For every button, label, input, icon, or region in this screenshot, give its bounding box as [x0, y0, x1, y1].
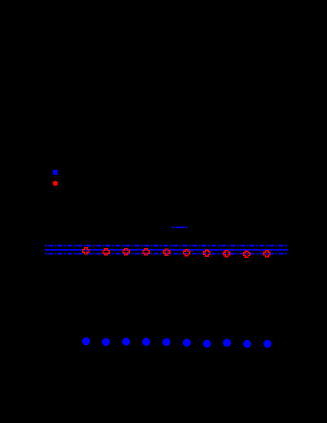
red plus error marker 9 — [244, 251, 250, 257]
lower blue dash-dot line — [45, 253, 288, 255]
blue data dot 7 — [203, 340, 211, 348]
red plus error marker 7 — [204, 250, 210, 256]
upper blue dash-dot line — [45, 245, 288, 247]
middle blue solid line — [45, 249, 288, 251]
red plus error marker 2 — [103, 249, 109, 255]
red plus error marker 6 — [184, 250, 190, 256]
blue data dot 4 — [142, 338, 150, 346]
blue data dot 8 — [223, 339, 231, 347]
legend red circle marker — [53, 181, 58, 186]
blue data dot 3 — [122, 338, 130, 346]
red plus error marker 1 — [83, 248, 89, 254]
red plus error marker 10 — [264, 251, 270, 257]
blue data dot 10 — [264, 340, 272, 348]
blue data dot 9 — [243, 340, 251, 348]
legend blue square marker — [53, 170, 58, 175]
red plus error marker 3 — [123, 248, 129, 254]
red plus error marker 8 — [224, 250, 230, 256]
red plus error marker 5 — [164, 249, 170, 255]
legend dash-dot line sample — [172, 226, 188, 228]
blue data dot 1 — [82, 337, 90, 345]
blue data dot 5 — [163, 338, 171, 346]
red plus error marker 4 — [143, 249, 149, 255]
blue data dot 6 — [183, 339, 191, 347]
blue data dot 2 — [102, 338, 110, 346]
